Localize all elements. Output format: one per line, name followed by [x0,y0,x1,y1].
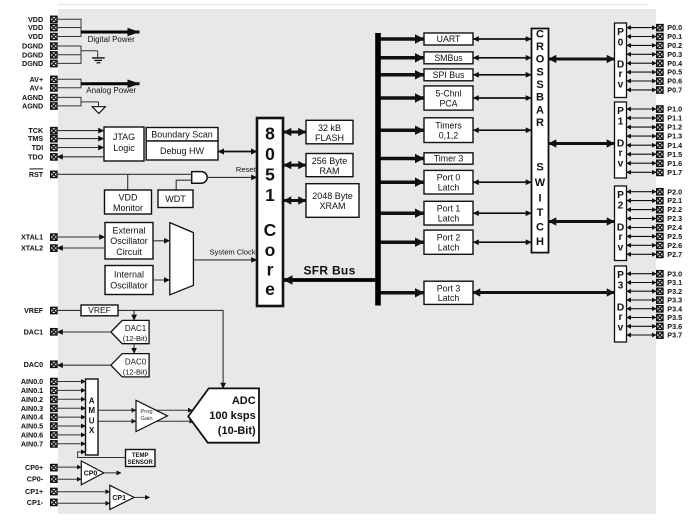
svg-text:(12-Bit): (12-Bit) [123,367,148,376]
block Port 0 Latch [424,170,473,194]
wire AIN0.7 to AMUX [57,443,86,445]
analog power arrow [81,82,140,85]
pin P1.0 [657,105,682,114]
wire TCK to JTAG Logic [57,130,104,132]
svg-text:0: 0 [618,38,624,49]
svg-text:P1.5: P1.5 [667,150,682,159]
svg-text:CP0: CP0 [84,471,98,478]
pin DGND [22,59,57,68]
pin P3.2 [657,287,682,296]
wire P3.6 to port driver [627,325,657,327]
svg-text:P1.2: P1.2 [667,123,682,132]
svg-text:P2.7: P2.7 [667,250,682,259]
block TEMP SENSOR [126,450,156,467]
svg-text:Boundary Scan: Boundary Scan [151,129,213,139]
svg-text:P0.5: P0.5 [667,68,682,77]
svg-text:VREF: VREF [24,306,44,315]
svg-text:2: 2 [618,201,624,212]
wire P1.1 to port driver [627,117,657,119]
block SPI Bus [424,69,473,81]
svg-text:XRAM: XRAM [319,201,345,211]
svg-text:External: External [112,226,145,236]
svg-text:TEMP: TEMP [132,453,149,459]
pin P2.2 [657,205,682,214]
block WDT [158,190,193,208]
wire SFR bus to Port 3 Latch [381,291,425,295]
svg-text:DAC0: DAC0 [24,360,44,369]
block 2048 Byte XRAM [306,184,359,218]
svg-text:CP1-: CP1- [27,498,44,507]
pin AIN0.1 [21,386,57,395]
wire P2.7 to port driver [627,253,657,255]
svg-text:C: C [536,29,544,41]
svg-text:VDD: VDD [28,23,43,32]
wire 8051 core to 256 Byte RAM [284,164,307,167]
svg-text:WDT: WDT [165,194,186,204]
wire P3.5 to port driver [627,317,657,319]
svg-text:P1.6: P1.6 [667,159,682,168]
pin P2.1 [657,196,682,205]
pin XTAL1 [21,233,57,242]
svg-text:P1.3: P1.3 [667,132,682,141]
svg-text:RAM: RAM [320,166,340,176]
pin P0.2 [657,41,682,50]
wire temp sensor to AMUX [78,452,126,458]
block Port 2 Latch [424,230,473,254]
svg-text:r: r [619,312,623,323]
wire AIN0.4 to AMUX [57,416,86,418]
wire crossbar to P1 Drv [549,142,615,145]
pin AIN0.7 [21,439,57,448]
svg-text:AV+: AV+ [30,83,44,92]
wire crossbar to P0 Drv [549,58,615,61]
svg-text:32 kB: 32 kB [318,123,341,133]
svg-text:C: C [264,220,277,240]
wire P2.6 to port driver [627,244,657,246]
svg-text:CP0-: CP0- [27,475,44,484]
svg-text:O: O [536,54,545,66]
block Timer 3 [424,153,473,164]
svg-text:DAC1: DAC1 [125,324,147,333]
pin P1.1 [657,114,682,123]
pin TCK [28,126,57,135]
svg-text:P3.3: P3.3 [667,296,682,305]
wire P3.7 to port driver [627,334,657,336]
svg-text:P2.4: P2.4 [667,223,682,232]
pin AGND [22,102,57,111]
wire Port 2 Latch to crossbar [473,241,532,243]
wire VDD pins [57,19,81,37]
svg-text:P1.0: P1.0 [667,105,682,114]
pin P0.6 [657,77,682,86]
wire RST to VDD monitor [127,174,129,190]
svg-text:PCA: PCA [439,98,457,108]
svg-text:5-Chnl: 5-Chnl [436,89,462,99]
svg-text:DAC0: DAC0 [125,357,147,366]
wire VREF to ADC [118,310,223,388]
wire prog gain amp to ADC (upper) [150,409,192,411]
wire P0.3 to port driver [627,53,657,55]
svg-text:o: o [265,240,276,260]
wire DGND pins [57,46,98,64]
block VDD Monitor [105,190,152,214]
svg-text:P2.2: P2.2 [667,205,682,214]
port driver P3 Drv [615,266,627,342]
wire Debug HW to 8051 core [218,151,257,153]
svg-text:P: P [617,106,624,117]
svg-text:5: 5 [265,165,275,185]
svg-text:C: C [536,222,544,234]
svg-text:2048 Byte: 2048 Byte [312,191,353,201]
svg-text:CP1+: CP1+ [25,487,43,496]
pin XTAL2 [21,244,57,253]
svg-text:AIN0.3: AIN0.3 [21,404,43,413]
pin P3.1 [657,278,682,287]
wire AMUX to prog gain amp (lower) [98,420,136,422]
wire reset gate to 8051 core [207,176,257,178]
svg-text:A: A [89,397,95,406]
wire RST to reset gate [57,173,192,175]
svg-text:P1.1: P1.1 [667,114,682,123]
pin TMS [28,134,57,143]
pin TDI [32,143,57,152]
svg-text:Circuit: Circuit [116,247,142,257]
wire P0.5 to port driver [627,71,657,73]
wire Port 0 Latch to crossbar [473,181,532,183]
block CROSSBAR SWITCH [532,29,549,253]
wire CP0- to CP0 [57,478,81,480]
svg-text:Latch: Latch [438,183,460,193]
svg-text:r: r [619,232,623,243]
svg-text:P0.4: P0.4 [667,59,682,68]
svg-text:P2.1: P2.1 [667,196,682,205]
wire Port 3 Latch to P3 Drv [473,291,615,294]
svg-text:P3.0: P3.0 [667,269,682,278]
block DAC1 (12-Bit) [111,320,149,343]
wire SFR bus to Timer 3 [381,157,425,161]
svg-text:AIN0.0: AIN0.0 [21,377,43,386]
pin P2.7 [657,250,682,259]
wire XTAL1 to external oscillator [57,236,105,238]
svg-text:UART: UART [437,34,461,44]
pin VREF [24,306,57,315]
pin P2.5 [657,232,682,241]
pin P1.5 [657,150,682,159]
svg-text:VDD: VDD [28,32,43,41]
wire SFR bus to Port 1 Latch [381,211,425,215]
pin VDD [28,15,57,24]
wire AMUX to prog gain amp (upper) [98,409,136,411]
svg-text:P3.4: P3.4 [667,304,682,313]
wire TDI to JTAG Logic [57,147,104,149]
svg-text:H: H [536,236,544,248]
block Port 3 Latch [424,281,473,304]
pin P3.3 [657,296,682,305]
reset gate [192,172,207,184]
svg-text:SPI Bus: SPI Bus [433,70,465,80]
SFR Bus horizontal line [284,278,379,282]
wire AV+ pins [57,79,81,89]
pin P0.3 [657,50,682,59]
svg-text:Timers: Timers [435,121,462,131]
svg-text:CP1: CP1 [112,495,126,502]
svg-text:SENSOR: SENSOR [128,460,154,466]
pin P3.4 [657,304,682,313]
wire AGND pins [57,97,99,107]
pin P3.6 [657,322,682,331]
pin P1.4 [657,141,682,150]
pin AIN0.3 [21,404,57,413]
svg-text:P2.6: P2.6 [667,241,682,250]
svg-text:R: R [536,117,544,129]
block DAC0 (12-Bit) [111,354,149,377]
pin CP0+ [25,463,57,472]
wire P0.1 to port driver [627,36,657,38]
svg-text:P: P [617,270,624,281]
wire Port 1 Latch to crossbar [473,212,532,214]
svg-text:r: r [619,148,623,159]
svg-text:P0.0: P0.0 [667,23,682,32]
wire VREF to DAC1 [133,310,135,320]
wire AIN0.6 to AMUX [57,434,86,436]
pin AIN0.0 [21,377,57,386]
wire P3.3 to port driver [627,299,657,301]
pin P3.5 [657,313,682,322]
svg-text:P3.7: P3.7 [667,331,682,340]
svg-text:S: S [536,66,543,78]
svg-text:B: B [536,91,544,103]
wire 8051 core to 2048 Byte XRAM [284,199,307,202]
wire JTAG Logic to TDO [57,156,104,158]
svg-text:Gain: Gain [140,416,152,422]
svg-text:0,1,2: 0,1,2 [439,130,459,140]
svg-text:A: A [536,104,544,116]
block ADC 100 ksps (10-Bit) [188,388,259,442]
svg-text:(10-Bit): (10-Bit) [218,425,256,437]
wire P3.4 to port driver [627,308,657,310]
wire internal oscillator to clock mux [153,279,170,281]
pin CP1+ [25,487,57,496]
wire P2.5 to port driver [627,235,657,237]
svg-text:VDD: VDD [118,193,138,203]
pin DAC0 [24,360,57,369]
wire system clock to 8051 core [193,259,257,261]
svg-text:v: v [618,323,624,334]
pin AGND [22,93,57,102]
svg-text:256 Byte: 256 Byte [312,156,348,166]
svg-text:P: P [617,27,624,38]
wire P1.6 to port driver [627,162,657,164]
svg-text:AIN0.5: AIN0.5 [21,422,43,431]
svg-text:TDI: TDI [32,143,44,152]
wire WDT to reset gate [176,180,192,190]
svg-text:System Clock: System Clock [210,247,256,256]
block VREF [81,305,118,316]
wire AIN0.5 to AMUX [57,425,86,427]
pin CP1- [27,498,57,507]
comparator CP1 [110,485,134,509]
wire DAC0 to DAC0 pin [57,364,111,366]
svg-text:DGND: DGND [22,42,43,51]
pin AIN0.6 [21,431,57,440]
pin AIN0.4 [21,413,57,422]
svg-text:P: P [617,190,624,201]
wire DAC1 to DAC0 [133,344,135,354]
svg-text:v: v [618,243,624,254]
svg-text:VREF: VREF [88,305,111,315]
wire P1.4 to port driver [627,144,657,146]
svg-text:P2.3: P2.3 [667,214,682,223]
wire P2.1 to port driver [627,200,657,202]
port driver P0 Drv [615,23,627,98]
digital ground symbol [92,58,105,63]
analog ground symbol [92,107,105,114]
svg-text:P0.6: P0.6 [667,77,682,86]
svg-text:Digital Power: Digital Power [88,35,135,44]
svg-text:AIN0.2: AIN0.2 [21,395,43,404]
wire CP0+ to CP0 [57,466,81,468]
svg-text:Latch: Latch [438,243,460,253]
pin DGND [22,50,57,59]
pin P2.6 [657,241,682,250]
wire P1.5 to port driver [627,153,657,155]
block Timers 0,1,2 [424,118,473,143]
svg-text:r: r [619,69,623,80]
wire UART to crossbar [473,38,532,40]
block 256 Byte RAM [306,154,353,177]
pin DGND [22,42,57,51]
wire P3.0 to port driver [627,273,657,275]
pin RST (active low) [29,169,57,179]
svg-text:v: v [618,159,624,170]
pin VDD [28,32,57,41]
wire SMBus to crossbar [473,57,532,59]
svg-text:P2.0: P2.0 [667,187,682,196]
port driver P2 Drv [615,186,627,261]
svg-text:S: S [536,161,543,173]
pin CP0- [27,475,57,484]
svg-text:Prog: Prog [140,409,152,415]
wire P1.2 to port driver [627,126,657,128]
pin P2.3 [657,214,682,223]
svg-text:Port 2: Port 2 [437,233,461,243]
svg-text:DAC1: DAC1 [24,327,44,336]
svg-text:U: U [89,416,95,425]
port driver P1 Drv [615,102,627,178]
svg-text:v: v [618,80,624,91]
svg-text:SMBus: SMBus [434,53,463,63]
svg-text:Oscillator: Oscillator [110,281,148,291]
wire 5-Chnl PCA to crossbar [473,97,532,99]
svg-text:1: 1 [618,117,624,128]
wire SFR bus to SPI Bus [381,73,425,77]
pin P3.0 [657,269,682,278]
pin AV+ [30,83,57,92]
wire P0.2 to port driver [627,44,657,46]
wire P0.7 to port driver [627,89,657,91]
svg-text:Analog Power: Analog Power [86,86,136,95]
svg-text:100 ksps: 100 ksps [209,410,255,422]
pin P0.1 [657,32,682,41]
svg-text:P3.2: P3.2 [667,287,682,296]
wire P3.2 to port driver [627,290,657,292]
pin DAC1 [24,327,57,336]
svg-text:Latch: Latch [438,213,460,223]
clock mux [170,223,194,295]
svg-text:W: W [535,177,546,189]
svg-text:AIN0.1: AIN0.1 [21,386,43,395]
pin AV+ [30,75,57,84]
svg-text:XTAL1: XTAL1 [21,233,43,242]
block JTAG Logic [104,127,144,161]
wire P2.4 to port driver [627,227,657,229]
wire AIN0.3 to AMUX [57,407,86,409]
svg-text:P0.1: P0.1 [667,32,682,41]
svg-text:P1.7: P1.7 [667,168,682,177]
svg-text:Port 0: Port 0 [437,173,461,183]
wire SFR bus to Timers 0,1,2 [381,128,425,132]
pin P0.5 [657,68,682,77]
wire P0.4 to port driver [627,62,657,64]
svg-text:Port 3: Port 3 [437,283,461,293]
wire P3.1 to port driver [627,282,657,284]
svg-text:R: R [536,41,544,53]
wire P2.3 to port driver [627,218,657,220]
block UART [424,33,473,45]
svg-text:Debug HW: Debug HW [160,146,205,156]
pin P2.0 [657,187,682,196]
pin TDO [28,152,57,161]
wire AIN0.0 to AMUX [57,381,86,383]
svg-text:DGND: DGND [22,59,43,68]
svg-text:AIN0.6: AIN0.6 [21,431,43,440]
pin AIN0.5 [21,422,57,431]
svg-text:P1.4: P1.4 [667,141,682,150]
pin AIN0.2 [21,395,57,404]
block Port 1 Latch [424,201,473,225]
svg-text:r: r [267,260,274,280]
svg-text:AIN0.7: AIN0.7 [21,439,43,448]
svg-text:P0.7: P0.7 [667,86,682,95]
svg-text:8: 8 [265,124,275,144]
pin P1.2 [657,123,682,132]
wire external oscillator to clock mux [153,240,170,242]
wire P2.0 to port driver [627,191,657,193]
wire CP1 output [134,496,150,498]
digital power arrow [81,31,140,34]
svg-text:CP0+: CP0+ [25,463,43,472]
svg-text:M: M [88,406,95,415]
svg-text:P0.3: P0.3 [667,50,682,59]
svg-text:RST: RST [29,170,44,179]
wire AIN0.2 to AMUX [57,398,86,400]
svg-text:Timer 3: Timer 3 [434,154,464,164]
wire Timers 0,1,2 to crossbar [473,129,532,131]
svg-text:I: I [538,192,541,204]
pin P1.7 [657,168,682,177]
wire prog gain amp to ADC (lower) [150,420,194,422]
wire CP1- to CP1 [57,502,110,504]
wire SFR bus to SMBus [381,56,425,60]
wire VREF pin to VREF block [57,309,81,311]
wire SPI Bus to crossbar [473,74,532,76]
wire TMS to JTAG Logic [57,138,104,140]
svg-text:Logic: Logic [113,143,135,153]
svg-text:AGND: AGND [22,102,43,111]
svg-text:Reset: Reset [236,165,257,174]
pin P0.7 [657,86,682,95]
wire external oscillator to XTAL2 [57,247,105,249]
